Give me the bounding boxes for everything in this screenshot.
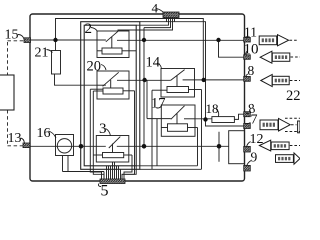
svg-text:15: 15 (5, 28, 19, 43)
svg-text:4: 4 (152, 0, 159, 15)
svg-text:7: 7 (251, 113, 258, 128)
svg-text:16: 16 (37, 126, 51, 141)
svg-text:22: 22 (286, 88, 300, 104)
svg-text:21: 21 (35, 46, 49, 61)
svg-text:17: 17 (151, 96, 166, 112)
svg-text:2: 2 (85, 21, 93, 37)
svg-text:12: 12 (250, 132, 264, 147)
svg-text:20: 20 (87, 59, 102, 75)
svg-text:10: 10 (244, 42, 259, 58)
svg-text:8: 8 (248, 63, 255, 78)
svg-text:18: 18 (206, 101, 219, 116)
svg-text:11: 11 (244, 25, 257, 40)
svg-text:3: 3 (99, 121, 107, 137)
svg-text:9: 9 (251, 150, 258, 165)
svg-text:13: 13 (8, 131, 22, 146)
svg-text:5: 5 (101, 183, 109, 200)
svg-text:14: 14 (146, 54, 161, 70)
